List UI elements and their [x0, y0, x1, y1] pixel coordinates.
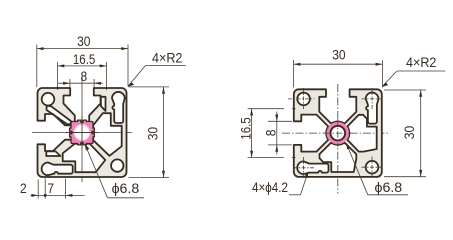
svg-text:16.5: 16.5 — [238, 117, 254, 140]
dimension 7 bottom: arrow outside right — [66, 194, 73, 197]
svg-text:4×R2: 4×R2 — [152, 50, 183, 66]
right profile hole crosshair BR vertical — [371, 157, 373, 179]
dimension 16.5 right drawing: arrow bottom — [250, 151, 253, 158]
dimension 30 right side left drawing: extension line top — [129, 86, 170, 88]
right profile hole crosshair TR vertical — [371, 88, 373, 110]
right profile hole crosshair BL horizontal — [293, 167, 315, 169]
svg-text:8: 8 — [80, 68, 87, 84]
dimension 30 top right drawing: arrow left — [294, 63, 301, 66]
dimension 30 right side left drawing: arrow top — [162, 87, 165, 94]
dimension 16.5 right drawing: arrow top — [250, 109, 253, 116]
dimension 30 right side right drawing: arrow bottom — [419, 170, 422, 177]
dimension 30 right side right drawing: extension line top — [384, 89, 426, 91]
right profile center pink ring — [327, 122, 349, 144]
left profile centerline over boss horizontal — [66, 132, 98, 134]
dimension 30 top left: extension line left — [36, 45, 38, 88]
dimension 30 right side left drawing: extension line bottom — [129, 177, 170, 179]
dimension 30 top left: dimension line — [37, 48, 128, 50]
svg-text:16.5: 16.5 — [73, 51, 96, 67]
dimension 16.5 right drawing: extension line bottom — [248, 157, 284, 159]
dimension 30 right side right drawing: dimension line — [420, 90, 422, 177]
dimension 30 top left: arrow left — [37, 47, 44, 50]
svg-text:8: 8 — [262, 129, 278, 136]
dimension 8 left: extension line right — [93, 79, 95, 87]
left profile centerline vertical — [81, 78, 83, 183]
surface tick right profile left face at 16.5 extent top — [292, 108, 295, 110]
right profile hole crosshair TL vertical — [303, 88, 305, 110]
label phi6.8 left drawing: leader underline — [108, 197, 145, 199]
label 4xR2 right: leader underline — [397, 70, 445, 72]
dimension 2 and 7 bottom: dimension line — [31, 194, 85, 196]
dimension 2 bottom: dot at shared extension — [44, 194, 47, 197]
label 4xR2 left: leader arrow — [128, 82, 135, 87]
label 4x4.2 right drawing: leader arrow — [304, 171, 308, 178]
dimension 30 top right drawing: arrow right — [376, 63, 383, 66]
svg-text:30: 30 — [332, 47, 346, 63]
svg-text:4×ϕ4.2: 4×ϕ4.2 — [252, 179, 288, 195]
right profile hole crosshair BR horizontal — [362, 166, 383, 168]
label 4xR2 left: leader underline — [146, 64, 186, 66]
dimension 16.5 left: extension line right — [106, 62, 108, 88]
right profile tube crosshair vertical — [337, 119, 339, 147]
dimension 30 top right drawing: extension line left — [293, 60, 295, 88]
right profile centerline horizontal dash-dot — [282, 132, 390, 134]
label 4xR2 right: leader arrow — [382, 82, 389, 87]
svg-text:2: 2 — [20, 180, 27, 196]
dimension 2 bottom: extension line right — [44, 179, 46, 199]
right profile body outline with T-slots — [294, 89, 382, 177]
label phi6.8 left drawing: leader arrow — [85, 144, 90, 151]
svg-text:30: 30 — [401, 126, 417, 140]
dimension 16.5 left: arrow left — [58, 64, 65, 67]
label 4xR2 right: leader diagonal — [382, 71, 397, 87]
dimension 8 left: arrow right outside — [94, 82, 101, 85]
left profile center hole white — [75, 125, 90, 140]
label 4x4.2 right drawing: leader diagonal — [301, 173, 308, 195]
left profile center boss with screw pads, pink fill — [70, 120, 95, 145]
svg-text:30: 30 — [145, 127, 161, 141]
dimension 8 right drawing: extension line top — [268, 120, 292, 122]
label 4xR2 left: leader diagonal — [128, 65, 146, 86]
dimension 30 right side left drawing: arrow bottom — [162, 171, 165, 178]
surface tick right profile left face at 16.5 extent bottom — [292, 157, 295, 159]
dimension 16.5 left: arrow right — [100, 64, 107, 67]
dimension 30 right side left drawing: dimension line — [163, 87, 165, 178]
dimension 2 bottom: extension line left — [37, 180, 39, 199]
dimension 8 right drawing: arrow bottom outside — [275, 145, 278, 152]
svg-text:7: 7 — [47, 180, 54, 196]
left profile center hole light pink ring — [73, 124, 90, 141]
right profile center tube outline — [331, 126, 346, 141]
dimension 30 right side right drawing: arrow top — [419, 90, 422, 97]
dimension 8 right drawing: extension line bottom — [268, 144, 292, 146]
label phi6.8 right drawing: leader underline — [368, 194, 408, 196]
dimension 8 left: extension line left — [69, 79, 71, 87]
left profile body outline with T-slots — [38, 88, 127, 177]
dimension 2 bottom: arrow outside left — [31, 194, 38, 197]
svg-text:4×R2: 4×R2 — [406, 54, 437, 70]
dimension 8 left: dimension line — [58, 82, 102, 84]
label phi6.8 right drawing: leader arrow — [346, 143, 351, 150]
svg-text:ϕ6.8: ϕ6.8 — [375, 179, 403, 195]
dimension 16.5 right drawing: dimension line — [251, 109, 253, 158]
dimension 16.5 left: dimension line — [58, 65, 107, 67]
dimension 7 bottom: extension line right — [65, 179, 67, 199]
dimension 8 right drawing: arrow top outside — [275, 115, 278, 122]
svg-text:ϕ6.8: ϕ6.8 — [112, 180, 140, 196]
right profile hole crosshair TL horizontal — [288, 98, 315, 100]
label 4x4.2 right drawing: leader horizontal — [289, 194, 301, 196]
label phi6.8 right drawing: leader diagonal — [346, 144, 368, 195]
dimension 30 right side right drawing: extension line bottom — [384, 176, 426, 178]
left profile centerline horizontal — [32, 132, 132, 134]
dimension 16.5 right drawing: extension line top — [248, 108, 284, 110]
right profile hole crosshair BL vertical — [303, 157, 305, 179]
surface tick left profile top face at 16.5 extent left — [57, 87, 59, 90]
surface tick left profile top face at 16.5 extent right — [106, 87, 108, 90]
dimension 30 top left: extension line right — [127, 45, 129, 87]
left profile centerline over boss vertical — [81, 116, 83, 149]
svg-text:30: 30 — [77, 33, 91, 49]
dimension 8 left: arrow left outside — [63, 82, 70, 85]
dimension 30 top right drawing: dimension line — [294, 63, 383, 65]
dimension 8 right drawing: dimension line — [276, 112, 278, 155]
right profile centerline vertical dash-dot — [337, 84, 339, 194]
right profile tube crosshair horizontal — [324, 132, 352, 134]
right profile hole crosshair TR horizontal — [362, 98, 383, 100]
dimension 30 top left: arrow right — [121, 47, 128, 50]
dimension 30 top right drawing: extension line right — [381, 60, 383, 88]
dimension 16.5 left: extension line left — [57, 62, 59, 88]
label phi6.8 left drawing: leader diagonal — [85, 145, 108, 198]
